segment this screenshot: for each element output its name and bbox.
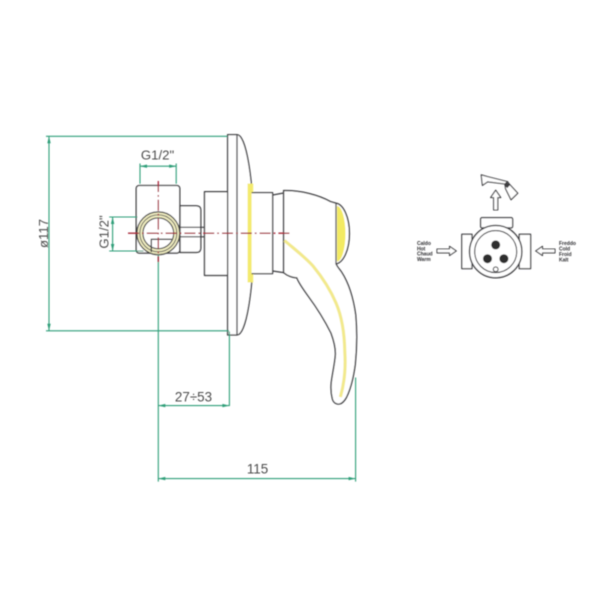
red centerline vertical bbox=[157, 181, 159, 262]
schematic: hot arrow bbox=[437, 246, 456, 255]
step detail inside circle bbox=[151, 239, 172, 252]
schematic: cold arrow bbox=[536, 246, 555, 255]
svg-text:G1/2": G1/2" bbox=[96, 215, 111, 249]
schematic: hot labels bbox=[417, 241, 433, 263]
pipe lines bbox=[176, 227, 205, 237]
svg-text:Kalt: Kalt bbox=[559, 257, 569, 263]
yellow curve in handle bbox=[285, 241, 346, 398]
yellow strip on plate bbox=[248, 184, 254, 283]
dimension o117 bbox=[46, 136, 229, 330]
dimension 115 bbox=[158, 378, 355, 482]
inlet circle middle bbox=[140, 215, 177, 252]
svg-text:G1/2": G1/2" bbox=[141, 148, 175, 163]
schematic: right tab bbox=[519, 234, 530, 268]
schematic: elbow nut bbox=[504, 182, 510, 188]
wall plate bbox=[228, 135, 254, 335]
schematic: shower head icon bbox=[481, 175, 518, 200]
dimension G1/2 side bbox=[109, 217, 143, 251]
connector nut bbox=[180, 206, 201, 253]
valve body behind plate bbox=[205, 192, 229, 276]
schematic: top bracket bbox=[481, 218, 513, 228]
dimension G1/2 top bbox=[140, 164, 176, 184]
inlet circle inner bbox=[143, 218, 174, 249]
svg-text:ø117: ø117 bbox=[36, 219, 51, 248]
dimension 27-53 bbox=[158, 332, 229, 408]
svg-text:27÷53: 27÷53 bbox=[175, 390, 212, 405]
red centerline horizontal bbox=[128, 232, 290, 234]
inlet circle outer bbox=[137, 212, 180, 255]
schematic: outlet bbox=[493, 267, 498, 272]
schematic: left tab bbox=[462, 234, 472, 268]
inlet block bbox=[136, 186, 180, 254]
schematic: cold labels bbox=[559, 241, 576, 263]
schematic: valve inner circle bbox=[475, 231, 517, 273]
centerline extension vertical bbox=[157, 255, 159, 482]
schematic: valve outer circle bbox=[470, 225, 522, 277]
schematic: ports bbox=[491, 240, 500, 249]
collar bbox=[273, 193, 284, 273]
yellow crescent on cap bbox=[337, 206, 345, 262]
svg-text:Warm: Warm bbox=[417, 257, 431, 263]
handle with lever bbox=[284, 191, 357, 405]
schematic: up arrow bbox=[491, 190, 501, 210]
handle cap flat line bbox=[335, 203, 337, 264]
svg-text:115: 115 bbox=[247, 462, 268, 477]
cartridge neck bbox=[252, 193, 273, 274]
